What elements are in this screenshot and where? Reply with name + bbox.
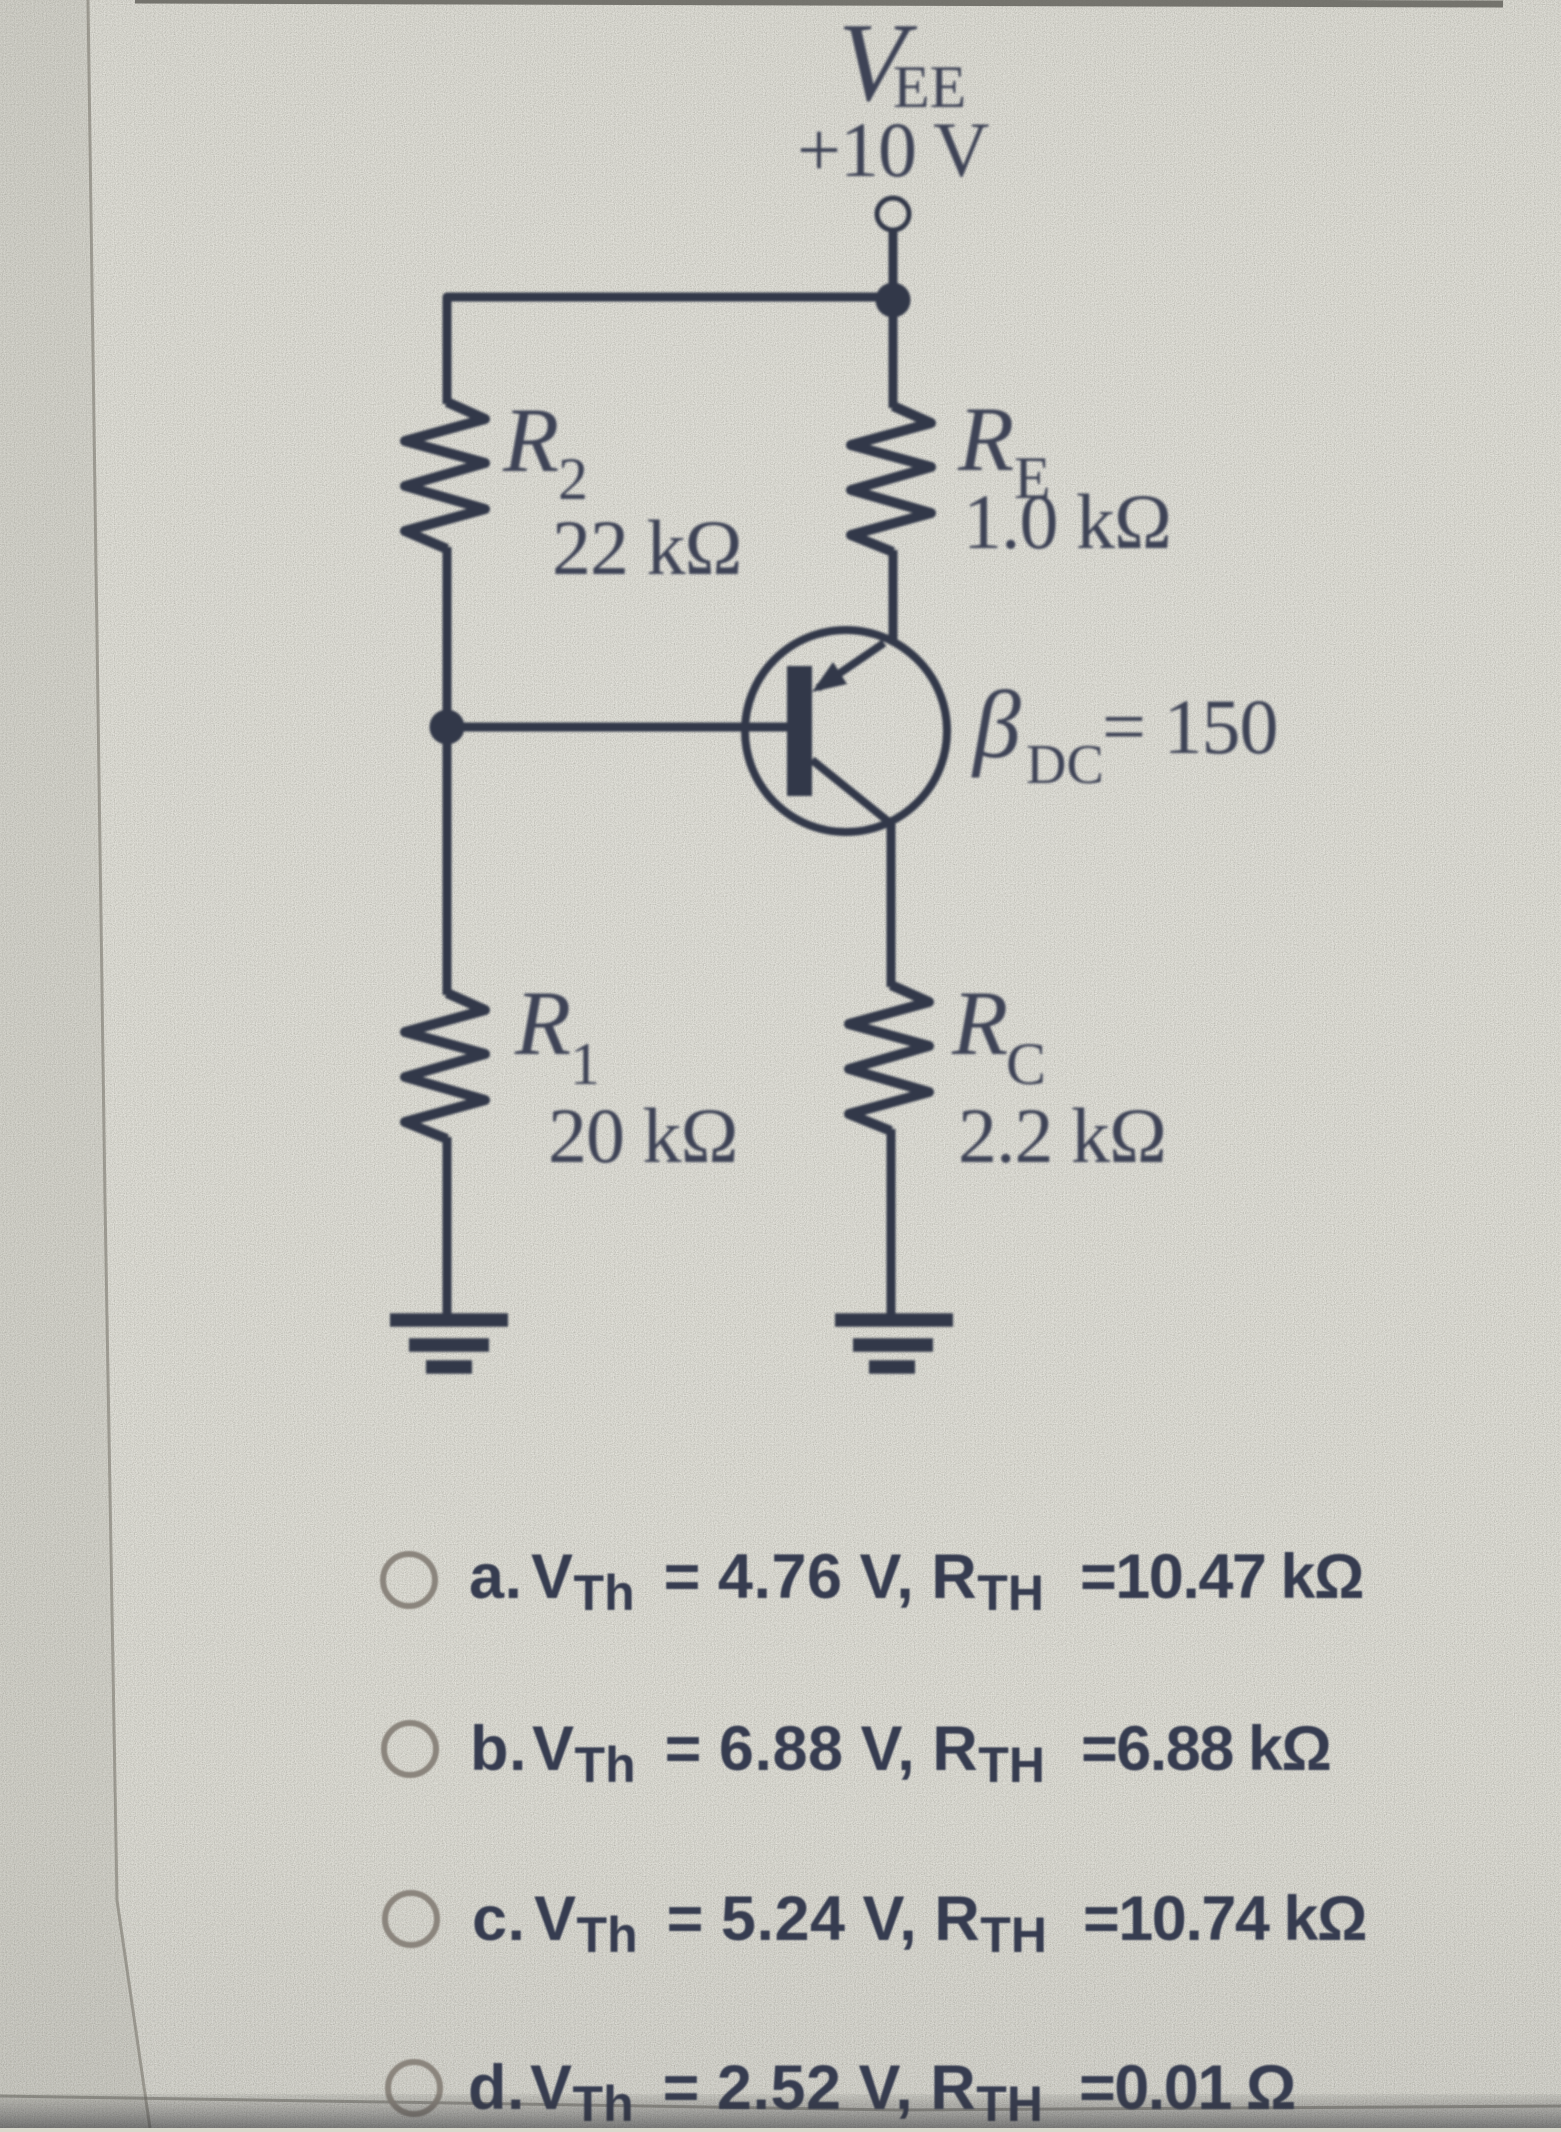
option a text (469, 1542, 1363, 1616)
option b text (470, 1714, 1330, 1788)
option c text (472, 1884, 1366, 1958)
option d radio (385, 2059, 443, 2117)
svg-text:DC: DC (1026, 734, 1104, 796)
svg-text:R: R (957, 388, 1014, 490)
transistor Q1 body circle (745, 630, 947, 832)
option d text (468, 2053, 1295, 2127)
svg-text:+10 V: +10 V (797, 106, 989, 193)
svg-text:= 150: = 150 (1102, 683, 1278, 770)
transistor Q1 collector line (812, 760, 889, 822)
svg-text:22 kΩ: 22 kΩ (552, 504, 741, 591)
transistor Q1 emitter line (818, 643, 884, 688)
wire R1 to ground (443, 1137, 452, 1316)
power terminal VEE (877, 198, 909, 230)
svg-text:2.2 kΩ: 2.2 kΩ (958, 1092, 1166, 1179)
svg-text:C: C (1006, 1031, 1046, 1097)
ground left (390, 1320, 508, 1367)
transistor Q1 base bar (787, 666, 812, 796)
ground right (835, 1320, 953, 1367)
node junction dot at VEE rail (876, 283, 911, 318)
svg-text:1: 1 (570, 1031, 600, 1097)
wire transistor collector to RC (887, 824, 896, 987)
wire RC to ground (887, 1129, 896, 1316)
wire top rail to left branch (447, 297, 893, 404)
svg-text:R: R (502, 389, 559, 491)
wire base node to transistor base (447, 723, 790, 732)
node junction dot at base (430, 710, 465, 745)
resistor R2 (405, 402, 485, 549)
svg-text:20 kΩ: 20 kΩ (548, 1092, 737, 1179)
svg-text:1.0 kΩ: 1.0 kΩ (963, 478, 1171, 565)
wire R2 to base node (443, 547, 452, 995)
option c radio (382, 1890, 440, 1948)
transistor Q1 emitter arrowhead (PNP) (812, 662, 847, 692)
resistor RE (851, 406, 931, 552)
resistor R1 (405, 993, 485, 1139)
option a radio (380, 1551, 438, 1609)
svg-text:2: 2 (558, 446, 588, 512)
wire RE to transistor emitter (889, 550, 898, 642)
svg-text:β: β (971, 671, 1021, 778)
svg-text:R: R (514, 972, 571, 1074)
wire terminal to junction (889, 230, 898, 288)
option b radio (381, 1720, 439, 1778)
resistor RC (849, 985, 929, 1131)
wire VEE junction down to RE (889, 300, 898, 408)
svg-text:R: R (951, 972, 1008, 1074)
